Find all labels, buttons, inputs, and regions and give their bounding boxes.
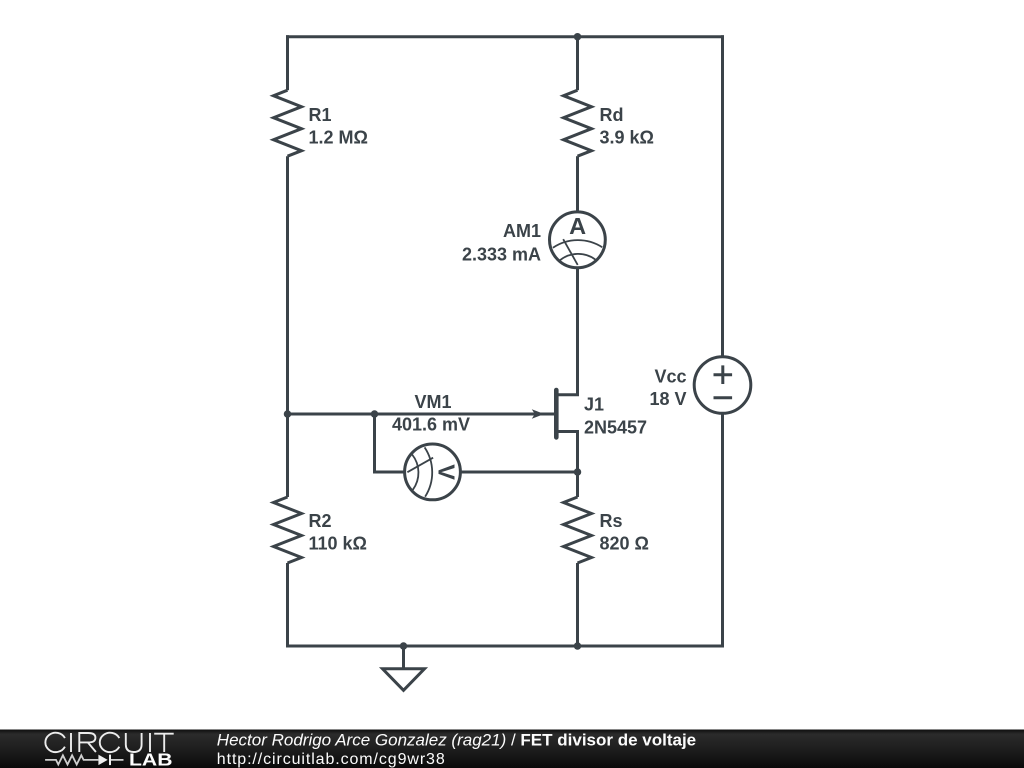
svg-text:Rd: Rd <box>600 105 624 125</box>
svg-text:110 kΩ: 110 kΩ <box>309 534 367 554</box>
wire left rail lower <box>286 563 289 648</box>
svg-text:V: V <box>433 464 459 480</box>
node source junction <box>574 468 582 476</box>
node gate-left junction <box>284 410 292 418</box>
ammeter AM1 <box>462 212 605 268</box>
node Rs bottom junction <box>574 642 582 650</box>
wire ammeter to drain <box>557 268 578 395</box>
svg-text:R1: R1 <box>309 105 332 125</box>
svg-text:http://circuitlab.com/cg9wr38: http://circuitlab.com/cg9wr38 <box>217 751 446 768</box>
wire right rail lower <box>721 413 724 647</box>
wire Rs to bottom <box>576 563 579 648</box>
wire voltmeter to source <box>461 471 578 474</box>
voltage source Vcc <box>649 357 750 414</box>
node ground junction <box>400 642 408 650</box>
wire right rail upper <box>721 35 724 357</box>
svg-text:2N5457: 2N5457 <box>584 418 647 438</box>
svg-text:3.9 kΩ: 3.9 kΩ <box>600 128 654 148</box>
wire Rd to ammeter <box>576 156 579 212</box>
footer bar <box>0 728 1024 768</box>
node voltmeter tap junction <box>371 410 379 418</box>
svg-text:401.6 mV: 401.6 mV <box>392 415 470 435</box>
svg-text:AM1: AM1 <box>503 221 541 241</box>
svg-text:Vcc: Vcc <box>654 367 686 387</box>
svg-text:Rs: Rs <box>600 511 623 531</box>
resistor Rd <box>564 90 654 156</box>
voltmeter VM1 <box>392 392 470 500</box>
wire bottom rail <box>286 645 724 648</box>
resistor R2 <box>274 497 367 563</box>
svg-text:J1: J1 <box>584 395 604 415</box>
ground <box>383 646 425 690</box>
wire left rail upper stub <box>286 35 289 90</box>
resistor Rs <box>564 497 649 563</box>
CircuitLab logo <box>45 730 696 768</box>
node top rail junction <box>574 33 582 41</box>
transistor J1 <box>532 390 647 497</box>
wire top rail <box>286 35 724 38</box>
svg-text:A: A <box>569 213 586 239</box>
svg-text:2.333 mA: 2.333 mA <box>462 245 541 265</box>
svg-text:VM1: VM1 <box>415 392 452 412</box>
resistor R1 <box>274 90 368 156</box>
svg-text:LAB: LAB <box>129 750 173 768</box>
svg-text:820 Ω: 820 Ω <box>600 534 649 554</box>
svg-text:18 V: 18 V <box>649 389 686 409</box>
wire gate <box>286 413 555 416</box>
svg-text:1.2 MΩ: 1.2 MΩ <box>309 128 368 148</box>
wire mid rail upper stub <box>576 35 579 90</box>
wire voltmeter drop <box>375 413 405 473</box>
svg-text:R2: R2 <box>309 511 332 531</box>
wire left rail middle <box>286 156 289 497</box>
svg-text:Hector Rodrigo Arce Gonzalez (: Hector Rodrigo Arce Gonzalez (rag21) / F… <box>217 730 696 749</box>
